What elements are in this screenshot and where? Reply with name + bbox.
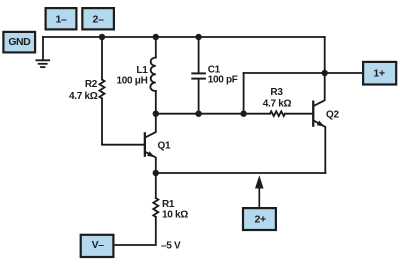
pin box 2- bbox=[82, 8, 114, 29]
wire top bus bbox=[43, 36, 325, 38]
svg-text:R2: R2 bbox=[85, 79, 98, 90]
resistor R1 bbox=[153, 198, 158, 217]
wire R1 bottom lead to V- bbox=[115, 217, 156, 245]
node junction dot at C1 top bbox=[195, 34, 201, 40]
node junction dot at 2- / R2 bbox=[99, 34, 105, 40]
label R3 value bbox=[263, 87, 292, 110]
wire GND drop bbox=[42, 37, 44, 60]
wire mid bus bbox=[156, 113, 270, 115]
wire R2 bottom lead to Q1 base bbox=[102, 98, 144, 144]
svg-text:Q1: Q1 bbox=[158, 141, 171, 152]
wire feedback drop bbox=[243, 73, 245, 114]
wire 1+ output bbox=[244, 72, 362, 74]
wire C1 bottom lead bbox=[198, 80, 200, 114]
pin box 2+ bbox=[243, 208, 276, 230]
pin box 1+ bbox=[363, 62, 396, 85]
svg-text:2+: 2+ bbox=[255, 214, 267, 226]
wire Q2 collector bbox=[314, 73, 324, 106]
inductor L1 bbox=[150, 57, 155, 91]
svg-text:R1: R1 bbox=[162, 199, 175, 210]
pin box GND bbox=[3, 32, 35, 53]
svg-text:1–: 1– bbox=[55, 13, 67, 25]
arrow 2+ sense bbox=[255, 175, 264, 207]
node junction dot at C1 bottom bbox=[195, 111, 201, 117]
node junction dot at L1 top bbox=[153, 34, 159, 40]
svg-text:–5 V: –5 V bbox=[161, 241, 181, 252]
transistor Q2 bbox=[312, 101, 324, 127]
svg-text:L1: L1 bbox=[136, 65, 148, 76]
wire C1 top lead bbox=[198, 37, 200, 73]
svg-text:R3: R3 bbox=[270, 87, 283, 98]
node junction dot at L1 bottom bbox=[153, 111, 159, 117]
svg-text:4.7 kΩ: 4.7 kΩ bbox=[69, 91, 98, 102]
svg-text:1+: 1+ bbox=[373, 67, 385, 79]
wire Q2 emitter riser bbox=[314, 121, 325, 173]
label R1 value bbox=[162, 199, 188, 221]
label L1 value bbox=[116, 65, 148, 87]
wire L1 top lead bbox=[155, 37, 157, 58]
node junction dot at feedback bbox=[240, 111, 246, 117]
svg-text:10 kΩ: 10 kΩ bbox=[162, 210, 188, 221]
svg-text:4.7 kΩ: 4.7 kΩ bbox=[263, 99, 292, 110]
svg-text:2–: 2– bbox=[93, 13, 105, 25]
resistor R2 bbox=[100, 80, 105, 99]
capacitor C1 bbox=[191, 73, 206, 78]
wire right drop to 1+ node bbox=[324, 37, 326, 73]
node junction dot at Q1 emitter bbox=[153, 170, 159, 176]
pin box V- bbox=[81, 235, 114, 257]
label C1 value bbox=[208, 65, 238, 86]
wire Q1 emitter lead bbox=[146, 152, 156, 173]
resistor R3 bbox=[270, 111, 285, 116]
wire R2 top lead bbox=[101, 37, 103, 80]
label R2 value bbox=[69, 79, 98, 102]
wire L1 bottom lead bbox=[155, 91, 157, 114]
svg-text:GND: GND bbox=[8, 36, 31, 48]
wire bottom bus bbox=[156, 172, 326, 174]
ground bbox=[36, 60, 51, 67]
transistor Q1 bbox=[144, 132, 155, 157]
svg-text:100 pF: 100 pF bbox=[208, 75, 238, 86]
svg-text:V–: V– bbox=[92, 239, 105, 251]
svg-text:100 μH: 100 μH bbox=[116, 76, 147, 87]
svg-text:Q2: Q2 bbox=[326, 110, 339, 121]
wire Q1 collector bbox=[146, 114, 156, 138]
wire R3 to Q2 base bbox=[285, 113, 312, 115]
pin box 1- bbox=[46, 8, 77, 29]
wire R1 top lead bbox=[155, 173, 157, 198]
node junction dot at 1+ bbox=[322, 70, 328, 76]
